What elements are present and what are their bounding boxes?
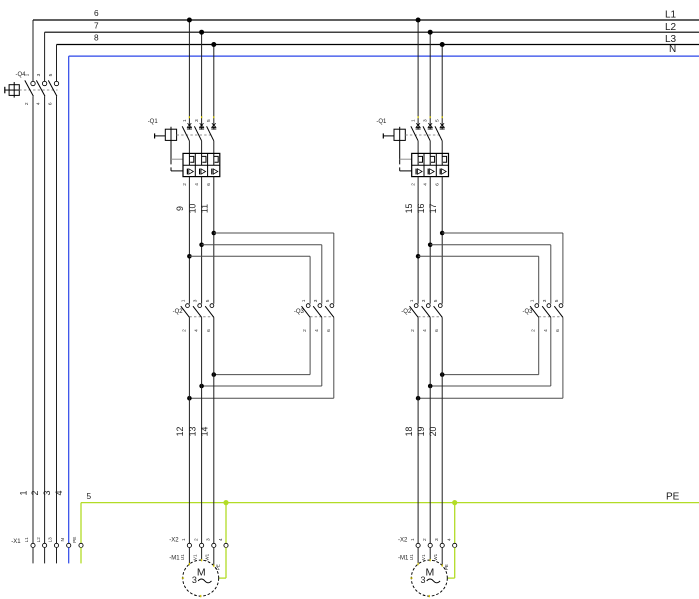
Q1 overload box [183,153,220,176]
svg-text:2: 2 [410,329,416,332]
wire number 6 [94,8,99,18]
svg-text:5: 5 [48,73,54,76]
-Q2 mechanical link [189,316,213,318]
motor M1 (branch A) [169,553,220,597]
svg-text:2: 2 [182,183,188,186]
svg-text:8: 8 [94,33,99,43]
svg-text:U1: U1 [409,554,414,560]
X2 terminal 2 [428,543,432,547]
svg-text:2: 2 [24,102,30,105]
svg-text:10: 10 [187,204,197,214]
PE junction branch B [452,500,457,505]
terminal strip X1 [11,537,83,548]
Q1 pole 1 contact [182,123,192,153]
junction loop bottom middle [428,384,433,389]
rail L3 (net 8) [57,44,699,46]
X2 terminal 1 [187,543,191,547]
junction L1/9 [187,18,192,23]
PE drop branch B [454,503,456,544]
rail L1 (net 6) [33,19,699,21]
svg-text:3: 3 [421,299,427,302]
svg-text:4: 4 [543,329,549,332]
svg-text:5: 5 [325,299,331,302]
-Q2 pole 3 contact [434,304,443,318]
svg-text:20: 20 [428,427,438,437]
svg-text:3: 3 [42,490,52,495]
svg-text:W1: W1 [205,553,210,560]
wire L2 drop to Q4 [44,32,46,81]
wire 13 [201,317,203,543]
svg-text:3: 3 [193,299,199,302]
neutral rail N [69,55,699,57]
svg-text:5: 5 [87,491,92,501]
junction loop bottom middle [199,384,204,389]
junction loop top outer [212,231,217,236]
svg-text:3: 3 [206,538,212,541]
junction loop top middle [428,243,433,248]
Q4 actuator box [9,85,19,96]
wire 2 vertical [44,96,46,543]
wire number 3 [42,490,52,495]
svg-text:4: 4 [218,538,224,541]
wire drop L2 branch A [201,32,203,123]
svg-text:-M1: -M1 [398,556,409,562]
wire drop L1 branch B [417,20,419,123]
svg-text:PE: PE [666,491,680,502]
svg-text:-Q1: -Q1 [376,119,387,125]
svg-text:2: 2 [531,329,537,332]
Q1 magnetic trip I> pole 2 [200,169,206,175]
svg-text:-X2: -X2 [169,538,179,544]
wire 5 PE drop [80,503,82,544]
wire number 12 [175,427,185,437]
-Q3 pole 3 contact [554,304,563,318]
wire number 4 [54,490,64,495]
svg-text:2: 2 [193,538,199,541]
svg-text:5: 5 [433,299,439,302]
wire 19 [429,317,431,543]
svg-text:12: 12 [175,427,185,437]
wire 18 [417,317,419,543]
disconnect switch Q4 [5,72,59,105]
-Q3 pole 2 contact [542,304,551,318]
label L3 [665,34,677,45]
svg-text:4: 4 [422,329,428,332]
Q1 pole 2 contact [423,123,433,153]
-Q3 mechanical link [539,316,563,318]
svg-text:V1: V1 [192,554,197,560]
wire L1 drop to Q4 [32,20,34,81]
X1 terminal L3 [54,543,58,547]
terminal strip X2 (branch B) [398,538,457,548]
-Q2 pole 1 contact [410,304,419,318]
Q4 actuator handle [4,87,6,94]
junction loop bottom inner [440,372,445,377]
motor feed V [429,548,431,561]
X1 terminal L2 [43,543,47,547]
X1 terminal L1 [31,543,35,547]
svg-text:M: M [426,566,435,578]
Q1 actuator handle [382,133,384,138]
svg-text:N: N [669,44,676,55]
Q1 mechanical link (dashed) [177,134,212,136]
motor PE feed [448,548,455,579]
svg-text:3: 3 [542,299,548,302]
Q1 pole 2 contact [194,123,204,153]
svg-text:-Q4: -Q4 [16,72,27,78]
svg-text:16: 16 [416,204,426,214]
Q1 pole 3 contact [435,123,445,153]
svg-text:-M1: -M1 [169,556,180,562]
-Q3 pole 2 contact [313,304,322,318]
Q1 thermal element pole 3 [442,153,446,165]
wire 9 [188,177,190,304]
wire 17 [441,177,443,304]
-Q2 mechanical link [418,316,442,318]
-Q2 pole 2 contact [193,304,202,318]
PE rail (net 5) [81,502,699,504]
svg-text:4: 4 [314,329,320,332]
svg-text:-Q2: -Q2 [173,309,184,315]
loop wire middle [202,245,322,386]
wire 11 [213,177,215,304]
svg-text:1: 1 [409,299,415,302]
svg-text:4: 4 [447,538,453,541]
svg-text:PE: PE [72,537,77,543]
-Q3 pole 1 contact [530,304,539,318]
motor feed W [441,548,443,566]
Q1 thermal element pole 2 [430,153,434,165]
label L1 [665,10,677,21]
wire drop L3 branch A [213,45,215,124]
rail L2 (net 7) [45,31,699,33]
Q1 actuator box [165,129,176,140]
svg-text:U1: U1 [180,554,185,560]
junction L2/10 [199,30,204,35]
svg-text:L2: L2 [665,22,677,33]
X1 terminal N [67,543,71,547]
svg-text:11: 11 [200,204,210,213]
svg-text:1: 1 [180,299,186,302]
motor circuit breaker Q1 (branch B) [376,119,448,186]
wire number 15 [404,204,414,214]
junction loop bottom outer [416,396,421,401]
M1 body [411,560,447,596]
wire drop L3 branch B [441,45,443,124]
Q1 mechanical link (dashed) [405,134,439,136]
svg-text:3: 3 [313,299,319,302]
svg-text:2: 2 [302,329,308,332]
wire number 14 [200,427,210,437]
-Q2 pole 3 contact [205,304,214,318]
svg-text:W1: W1 [433,553,438,560]
svg-text:L1: L1 [24,537,29,543]
loop wire inner (swap L1) [189,256,310,374]
svg-text:15: 15 [404,204,414,214]
Q1 magnetic trip I> pole 1 [416,169,422,175]
label L2 [665,22,677,33]
junction L3/17 [440,42,445,47]
wire drop L1 branch A [188,20,190,123]
svg-text:6: 6 [47,102,53,105]
svg-text:5: 5 [554,299,560,302]
motor PE feed [219,548,226,579]
Q1 magnetic trip I> pole 3 [440,169,446,175]
svg-text:3: 3 [36,73,42,76]
Q1 trip linkage [170,140,172,171]
Q1 actuator handle [154,133,156,138]
svg-text:3: 3 [192,575,197,585]
svg-text:1: 1 [411,119,417,122]
svg-text:1: 1 [301,299,307,302]
wire number 18 [404,427,414,437]
svg-text:-Q3: -Q3 [522,309,533,315]
PE junction branch A [223,500,228,505]
Q1 thermal element pole 3 [214,153,218,165]
svg-text:6: 6 [206,183,212,186]
wire number 20 [428,427,438,437]
wire number 10 [187,204,197,214]
loop wire outer (swap L3) [418,233,563,398]
svg-text:13: 13 [187,427,197,437]
svg-text:-Q1: -Q1 [148,119,159,125]
motor feed W [213,548,215,566]
svg-text:L3: L3 [48,537,53,543]
M1 body [183,560,219,596]
wire L3 drop to Q4 [56,45,58,82]
Q1 trip linkage [399,140,401,171]
svg-text:-Q2: -Q2 [401,309,412,315]
junction loop bottom outer [187,396,192,401]
label N [669,44,676,55]
svg-text:9: 9 [175,206,185,211]
junction loop top inner [187,254,192,259]
wire number 11 [200,204,210,213]
svg-text:6: 6 [206,329,212,332]
-Q3 mechanical link [310,316,334,318]
svg-text:3: 3 [423,119,429,122]
wire number 1 [19,490,29,495]
wire 15 [417,177,419,304]
svg-text:3: 3 [420,575,425,585]
Q1 magnetic trip I> pole 2 [428,169,434,175]
svg-text:2: 2 [422,538,428,541]
svg-text:19: 19 [416,427,426,437]
-Q3 pole 3 contact [325,304,334,318]
connection ticks [417,563,419,565]
svg-text:-X2: -X2 [398,538,408,544]
wire 20 [441,317,443,543]
-Q2 pole 1 contact [181,304,190,318]
junction loop top middle [199,243,204,248]
wire 10 [201,177,203,304]
wire number 17 [428,204,438,214]
loop wire inner (swap L1) [418,256,539,374]
svg-text:1: 1 [530,299,536,302]
Q1 pole 3 contact [207,123,217,153]
Q1 magnetic trip I> pole 1 [187,169,193,175]
connection ticks [188,563,190,565]
svg-text:6: 6 [555,329,561,332]
wire number 5 [87,491,92,501]
svg-text:-Q3: -Q3 [294,309,305,315]
svg-text:14: 14 [200,427,210,437]
Q1 thermal element pole 2 [202,153,206,165]
connection ticks [189,116,213,118]
svg-text:4: 4 [194,329,200,332]
svg-text:6: 6 [435,183,441,186]
Q4 mechanical link (dashed) [19,89,57,91]
wire number 7 [94,20,99,30]
junction L2/16 [428,30,433,35]
motor M1 (branch B) [398,553,449,597]
Q1 actuator box [394,129,405,140]
label PE [666,491,680,502]
Q1 thermal element pole 1 [189,153,193,165]
X2 terminal 4 [224,543,228,547]
svg-text:L2: L2 [36,537,41,543]
wire 16 [429,177,431,304]
wire number 16 [416,204,426,214]
svg-text:4: 4 [36,102,42,105]
junction L3/11 [211,42,216,47]
wire 1 vertical [32,96,34,543]
svg-text:N: N [60,538,65,541]
Q1 pole 1 contact [411,123,421,153]
svg-text:6: 6 [326,329,332,332]
svg-text:2: 2 [411,183,417,186]
svg-text:3: 3 [194,119,200,122]
svg-text:1: 1 [19,490,29,495]
svg-text:17: 17 [428,204,438,214]
svg-text:4: 4 [194,183,200,186]
junction loop top outer [440,231,445,236]
X2 terminal 4 [453,543,457,547]
svg-text:1: 1 [181,538,187,541]
wire number 19 [416,427,426,437]
terminal strip X2 (branch A) [169,538,228,548]
svg-text:2: 2 [181,329,187,332]
wire 4 neutral vertical [68,56,70,543]
loop wire outer (swap L3) [189,233,333,398]
svg-text:18: 18 [404,427,414,437]
svg-text:-X1: -X1 [11,539,21,545]
motor feed U [417,548,419,565]
-Q3 pole 1 contact [302,304,311,318]
loop wire middle [430,245,551,386]
svg-text:1: 1 [25,73,31,76]
junction loop top inner [416,254,421,259]
Q1 magnetic trip I> pole 3 [212,169,218,175]
svg-text:3: 3 [434,538,440,541]
-Q2 pole 2 contact [422,304,431,318]
wire number 9 [175,206,185,211]
connection ticks [418,116,442,118]
svg-text:6: 6 [434,329,440,332]
svg-text:7: 7 [94,20,99,30]
svg-text:M: M [197,566,206,578]
svg-text:2: 2 [30,490,40,495]
wire 14 [213,317,215,543]
X2 terminal 2 [200,543,204,547]
X2 terminal 3 [440,543,444,547]
wire 3 vertical [56,96,58,543]
contactor -Q3 (branch B) [522,299,562,332]
svg-text:1: 1 [182,119,188,122]
wire stubs below X1 [33,548,81,564]
Q4 pole 1 contact [31,81,35,85]
junction L1/15 [416,18,421,23]
motor feed U [188,548,190,565]
svg-text:L1: L1 [665,10,677,21]
svg-text:4: 4 [54,490,64,495]
X2 terminal 3 [212,543,216,547]
svg-text:5: 5 [205,299,211,302]
svg-text:5: 5 [206,119,212,122]
wire number 13 [187,427,197,437]
Q1 thermal element pole 1 [418,153,422,165]
svg-text:5: 5 [435,119,441,122]
motor feed V [201,548,203,561]
svg-text:4: 4 [423,183,429,186]
svg-text:1: 1 [410,538,416,541]
wire drop L2 branch B [429,32,431,123]
wire number 8 [94,33,99,43]
PE drop branch A [225,503,227,544]
X2 terminal 1 [416,543,420,547]
junction loop bottom inner [212,372,217,377]
contactor -Q3 (branch A) [294,299,334,332]
contactor -Q2 (branch B) [401,299,442,332]
wire 12 [188,317,190,543]
contactor -Q2 (branch A) [173,299,214,332]
motor circuit breaker Q1 (branch A) [148,119,220,186]
Q4 pole 3 contact [54,81,58,85]
X1 terminal PE [79,543,83,547]
wire number 2 [30,490,40,495]
svg-text:6: 6 [94,8,99,18]
Q1 overload box [412,153,449,176]
svg-text:V1: V1 [421,554,426,560]
Q4 pole 2 contact [42,81,46,85]
